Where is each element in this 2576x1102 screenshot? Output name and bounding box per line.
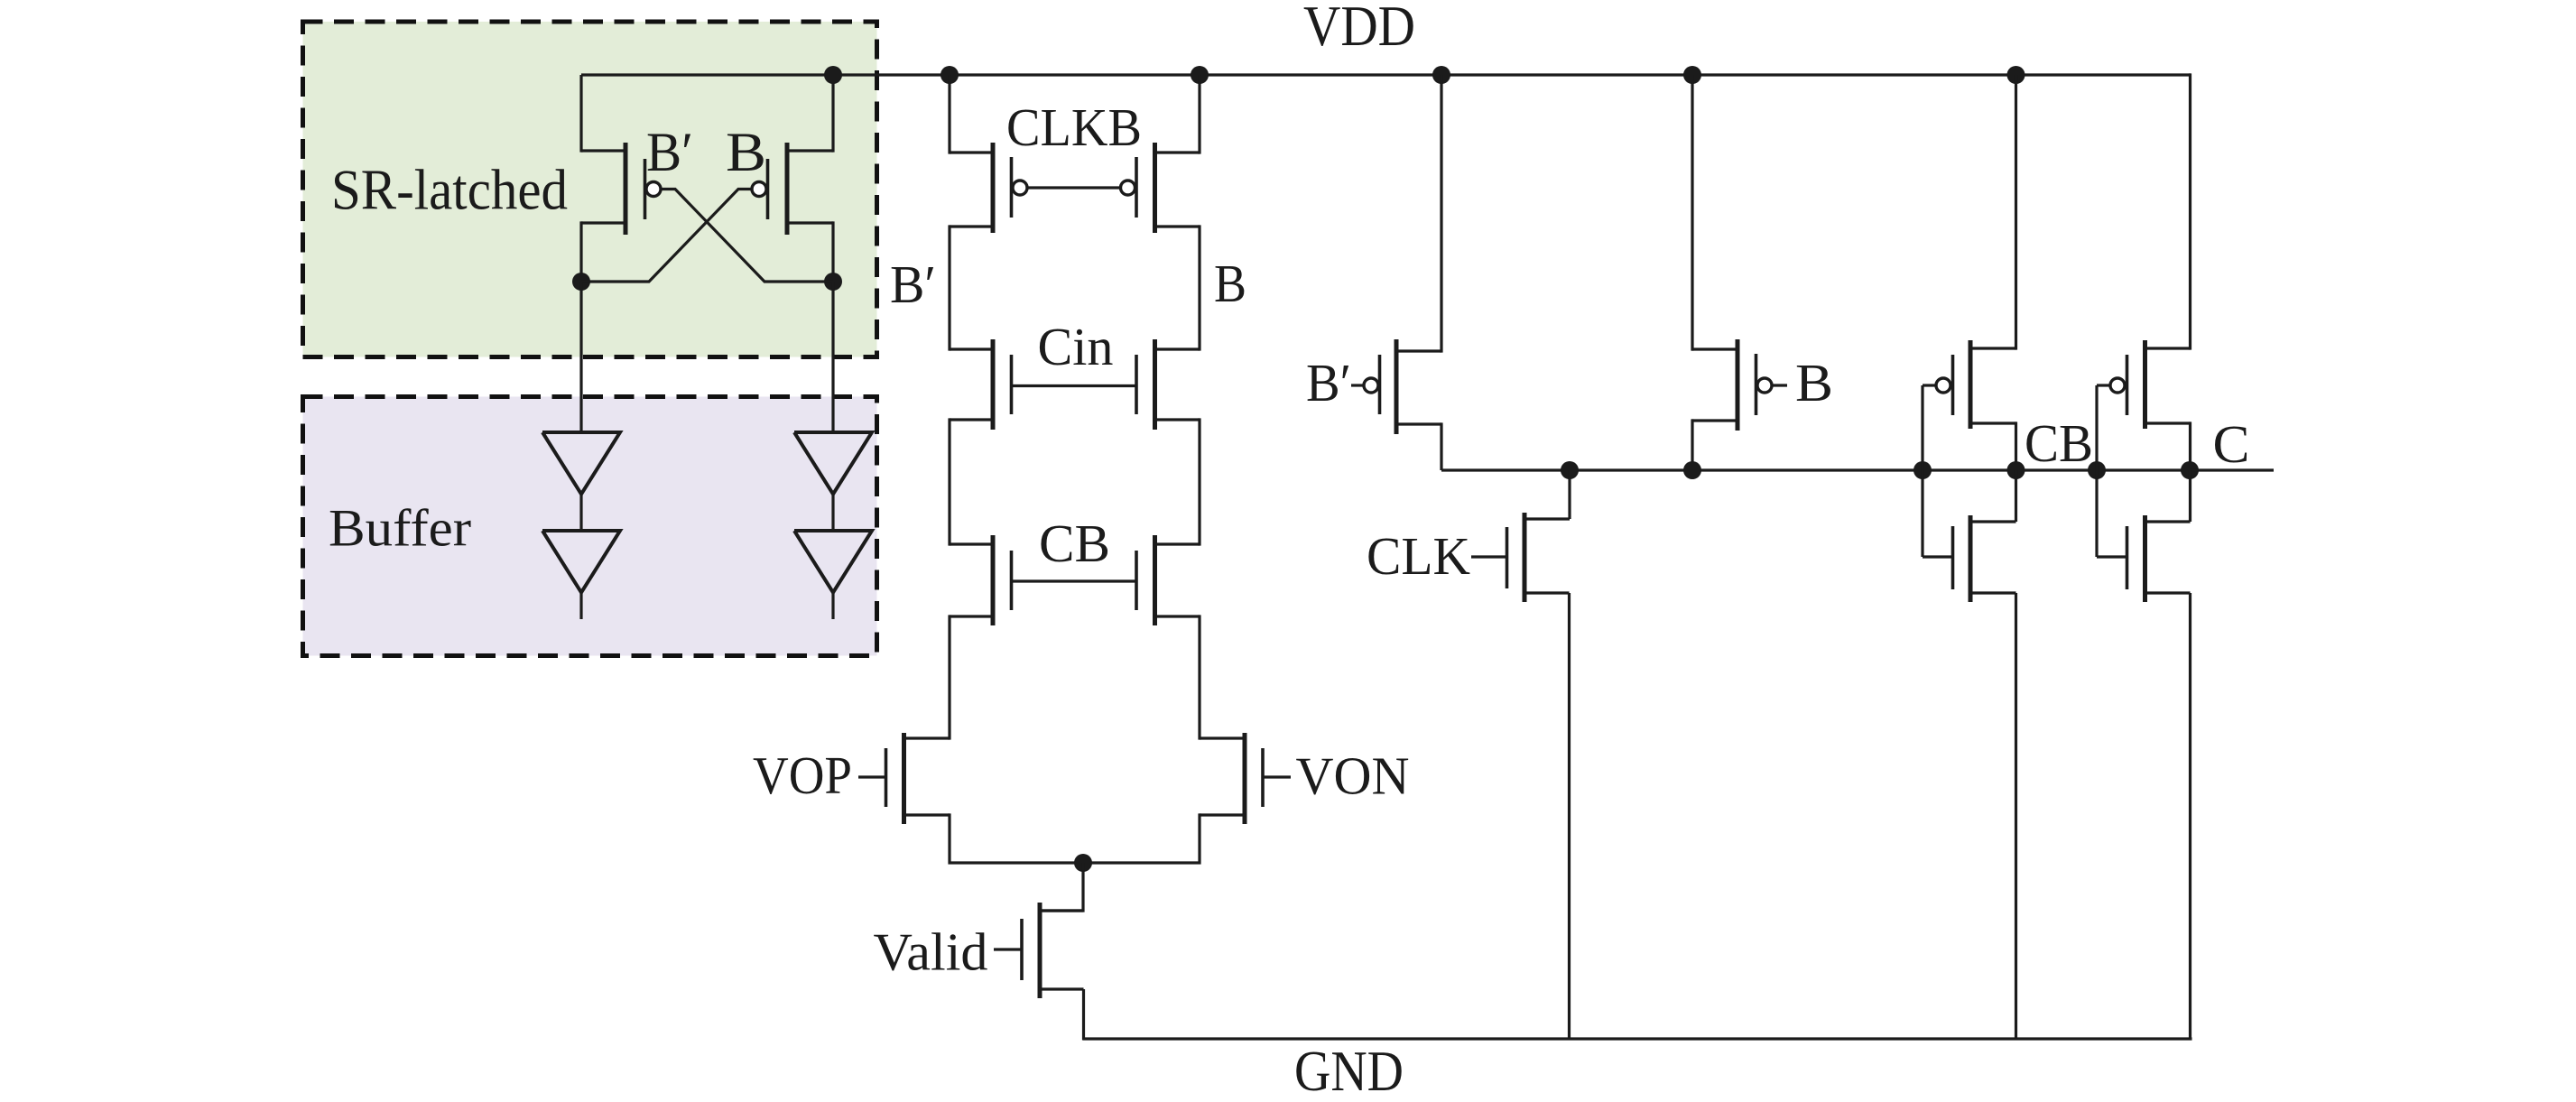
transistor PMOS B' (pull-down of node CLKB') [1380, 339, 1442, 434]
node VDD junction above SR latch [824, 66, 842, 84]
label Cin [1038, 317, 1114, 376]
transistor PMOS SR-latch left (gate B') [581, 143, 645, 235]
wire inverter1 nmos source to GND [2015, 593, 2017, 1041]
wire CLK source to GND [1568, 593, 1571, 1041]
wire CLK drain up to node [1568, 470, 1571, 519]
transistor NMOS inverter2 [2127, 515, 2191, 602]
wire inverter2 nmos drain up [2189, 470, 2191, 522]
transistor NMOS Cin right [1136, 339, 1200, 430]
node B (SR latch right output) [824, 273, 842, 291]
transistor NMOS Cin left [950, 339, 1012, 430]
wire VOP source to tail [950, 813, 1083, 863]
svg-text:C: C [2213, 414, 2250, 474]
wire B pullup source to VDD [1691, 75, 1693, 351]
svg-text:B′: B′ [1306, 353, 1351, 412]
transistor PMOS CLKB right [1136, 143, 1200, 233]
svg-text:VON: VON [1296, 746, 1410, 806]
SR-latched region box [303, 22, 877, 357]
wire B node to buffer chain [831, 282, 834, 432]
buffer inverter triangle 2 (B' chain) [542, 531, 620, 593]
transistor PMOS CLKB left [950, 143, 1012, 233]
label B (SR-latch right gate) [726, 123, 766, 183]
label CB (comparator) [1039, 514, 1110, 573]
wire B' pullup source to VDD [1440, 75, 1442, 353]
label CLK [1367, 526, 1470, 586]
bubble on SR-latch right gate [752, 182, 766, 197]
bubble B pullup gate [1757, 378, 1772, 393]
wire inverter1 nmos drain up [2015, 470, 2017, 522]
wire internal node line [1441, 468, 2190, 471]
wire SR-latch right source to VDD [831, 75, 834, 153]
wire SR-latch right drain down [831, 221, 834, 282]
wire cross-couple left-gate to right-node [661, 190, 834, 282]
wire right branch CB to VON [1198, 615, 1200, 739]
node B' (SR latch left output) [572, 273, 590, 291]
node VDD junction left branch [941, 66, 959, 84]
label node B (right branch) [1214, 254, 1246, 313]
transistor NMOS VON [1200, 733, 1263, 824]
svg-text:Cin: Cin [1038, 317, 1114, 376]
bubble CLKB left gate [1013, 181, 1027, 195]
wire right branch Cin to CB [1198, 418, 1200, 545]
wire right branch VDD to CLKB pmos [1198, 75, 1200, 154]
wire inverter1 input riser [1921, 385, 1923, 557]
wire inverter1 pmos source to VDD [2015, 75, 2017, 350]
buffer inverter triangle 2 (B chain) [794, 531, 872, 593]
wire inverter2 input riser [2095, 385, 2098, 557]
transistor NMOS Valid [1022, 903, 1084, 998]
svg-text:B: B [1795, 353, 1833, 412]
wire SR-latch left drain down [579, 221, 582, 282]
svg-text:Buffer: Buffer [329, 499, 471, 558]
buffer inverter triangle 1 (B chain) [794, 432, 872, 495]
wire VOP gate lead [858, 775, 886, 778]
wire inverter1 pmos gate lead [1923, 384, 1937, 386]
label Valid [874, 922, 988, 982]
svg-text:CB: CB [1039, 514, 1110, 573]
wire B pullup drain to node line [1691, 419, 1693, 470]
wire inverter2 pmos drain to node C [2189, 421, 2191, 470]
wire CLK gate lead [1471, 555, 1507, 558]
node VDD junction B' pullup [1432, 66, 1450, 84]
wire SR-latch left source to VDD [579, 75, 582, 153]
wire left branch VDD to CLKB pmos [948, 75, 950, 154]
label node B' (left branch) [890, 255, 936, 314]
label B' (pullup gate) [1306, 353, 1351, 412]
wire B' node to buffer chain [579, 282, 582, 432]
wire inverter2 pmos source from VDD corner [2189, 73, 2191, 349]
transistor PMOS inverter2 [2127, 340, 2191, 429]
wire Valid gate lead [994, 948, 1022, 950]
label CB (node) [2025, 413, 2093, 473]
label B (pullup gate) [1795, 353, 1833, 412]
wire CB gate link [1012, 579, 1137, 582]
node VDD junction right branch [1191, 66, 1209, 84]
wire right branch CLKB to Cin [1198, 225, 1200, 350]
Buffer region box [303, 397, 877, 656]
svg-text:CLKB: CLKB [1006, 97, 1142, 157]
bubble on SR-latch left gate [646, 182, 661, 197]
bubble CLKB right gate [1121, 181, 1135, 195]
label B' (SR-latch left gate) [646, 123, 693, 183]
bubble inverter1 pmos gate [1936, 378, 1951, 393]
label GND [1294, 1039, 1404, 1102]
label VON [1296, 746, 1410, 806]
bubble inverter2 pmos gate [2110, 378, 2125, 393]
svg-text:CLK: CLK [1367, 526, 1470, 586]
wire cross-couple right-gate to left-node [581, 190, 753, 282]
wire inverter2 nmos source to GND [2189, 593, 2191, 1041]
wire left branch CB to VOP [948, 615, 950, 739]
svg-text:GND: GND [1294, 1039, 1404, 1102]
node tail junction [1074, 854, 1092, 872]
svg-text:B′: B′ [646, 123, 693, 183]
transistor NMOS CB left [950, 535, 1012, 625]
wire B' pullup drain to node line [1440, 422, 1442, 470]
wire VON gate lead [1263, 775, 1291, 778]
wire GND rail [1083, 1037, 2192, 1040]
wire left branch CLKB to Cin [948, 225, 950, 350]
label CLKB [1006, 97, 1142, 157]
node junction inverter2 input [2088, 461, 2106, 479]
transistor NMOS CLK [1507, 513, 1571, 602]
wire B' buffer output stub [579, 590, 582, 619]
node junction CLK drain [1561, 461, 1579, 479]
label VDD [1303, 0, 1415, 58]
wire C output [2190, 468, 2274, 471]
transistor PMOS SR-latch right (gate B) [768, 143, 834, 235]
svg-text:SR-latched: SR-latched [331, 159, 568, 222]
node junction B drain [1683, 461, 1701, 479]
wire tail to Valid drain [1040, 863, 1083, 911]
node CB (inverter1 output) [2007, 461, 2025, 479]
transistor PMOS B (pull-up right) [1691, 339, 1756, 431]
svg-text:B: B [726, 123, 766, 183]
wire between B' buffers [579, 492, 582, 531]
wire B buffer output stub [831, 590, 834, 619]
node VDD junction inverter1 [2007, 66, 2025, 84]
wire inverter2 nmos gate lead [2097, 555, 2127, 558]
wire left branch Cin to CB [948, 418, 950, 545]
svg-text:B: B [1214, 254, 1246, 313]
buffer inverter triangle 1 (B' chain) [542, 432, 620, 495]
svg-text:VOP: VOP [753, 745, 852, 805]
wire inverter2 pmos gate lead [2097, 384, 2111, 386]
wire Valid source to GND [1082, 989, 1085, 1041]
label Buffer [329, 499, 471, 558]
node VDD junction B pullup [1683, 66, 1701, 84]
svg-text:B′: B′ [890, 255, 936, 314]
wire Cin gate link [1012, 384, 1137, 387]
node C (inverter2 output) [2181, 461, 2199, 479]
label C (node) [2213, 414, 2250, 474]
wire VON source to tail [1083, 813, 1200, 863]
wire inverter1 pmos drain to node CB [2015, 421, 2017, 470]
transistor PMOS inverter1 [1953, 340, 2016, 429]
bubble B' pullup gate [1364, 378, 1378, 393]
svg-text:VDD: VDD [1303, 0, 1415, 58]
label SR-latched [331, 159, 568, 222]
svg-text:Valid: Valid [874, 922, 988, 982]
wire B pullup gate lead [1772, 384, 1788, 386]
wire between B buffers [831, 492, 834, 531]
transistor NMOS CB right [1136, 535, 1200, 625]
wire B' pullup gate lead [1351, 384, 1365, 386]
transistor NMOS inverter1 [1953, 515, 2016, 602]
label VOP [753, 745, 852, 805]
svg-text:CB: CB [2025, 413, 2093, 473]
node junction inverter1 input [1913, 461, 1932, 479]
wire inverter1 nmos gate lead [1923, 555, 1953, 558]
wire CLKB gate link [1027, 186, 1122, 189]
transistor NMOS VOP [886, 733, 950, 824]
wire VDD rail [581, 73, 2191, 76]
